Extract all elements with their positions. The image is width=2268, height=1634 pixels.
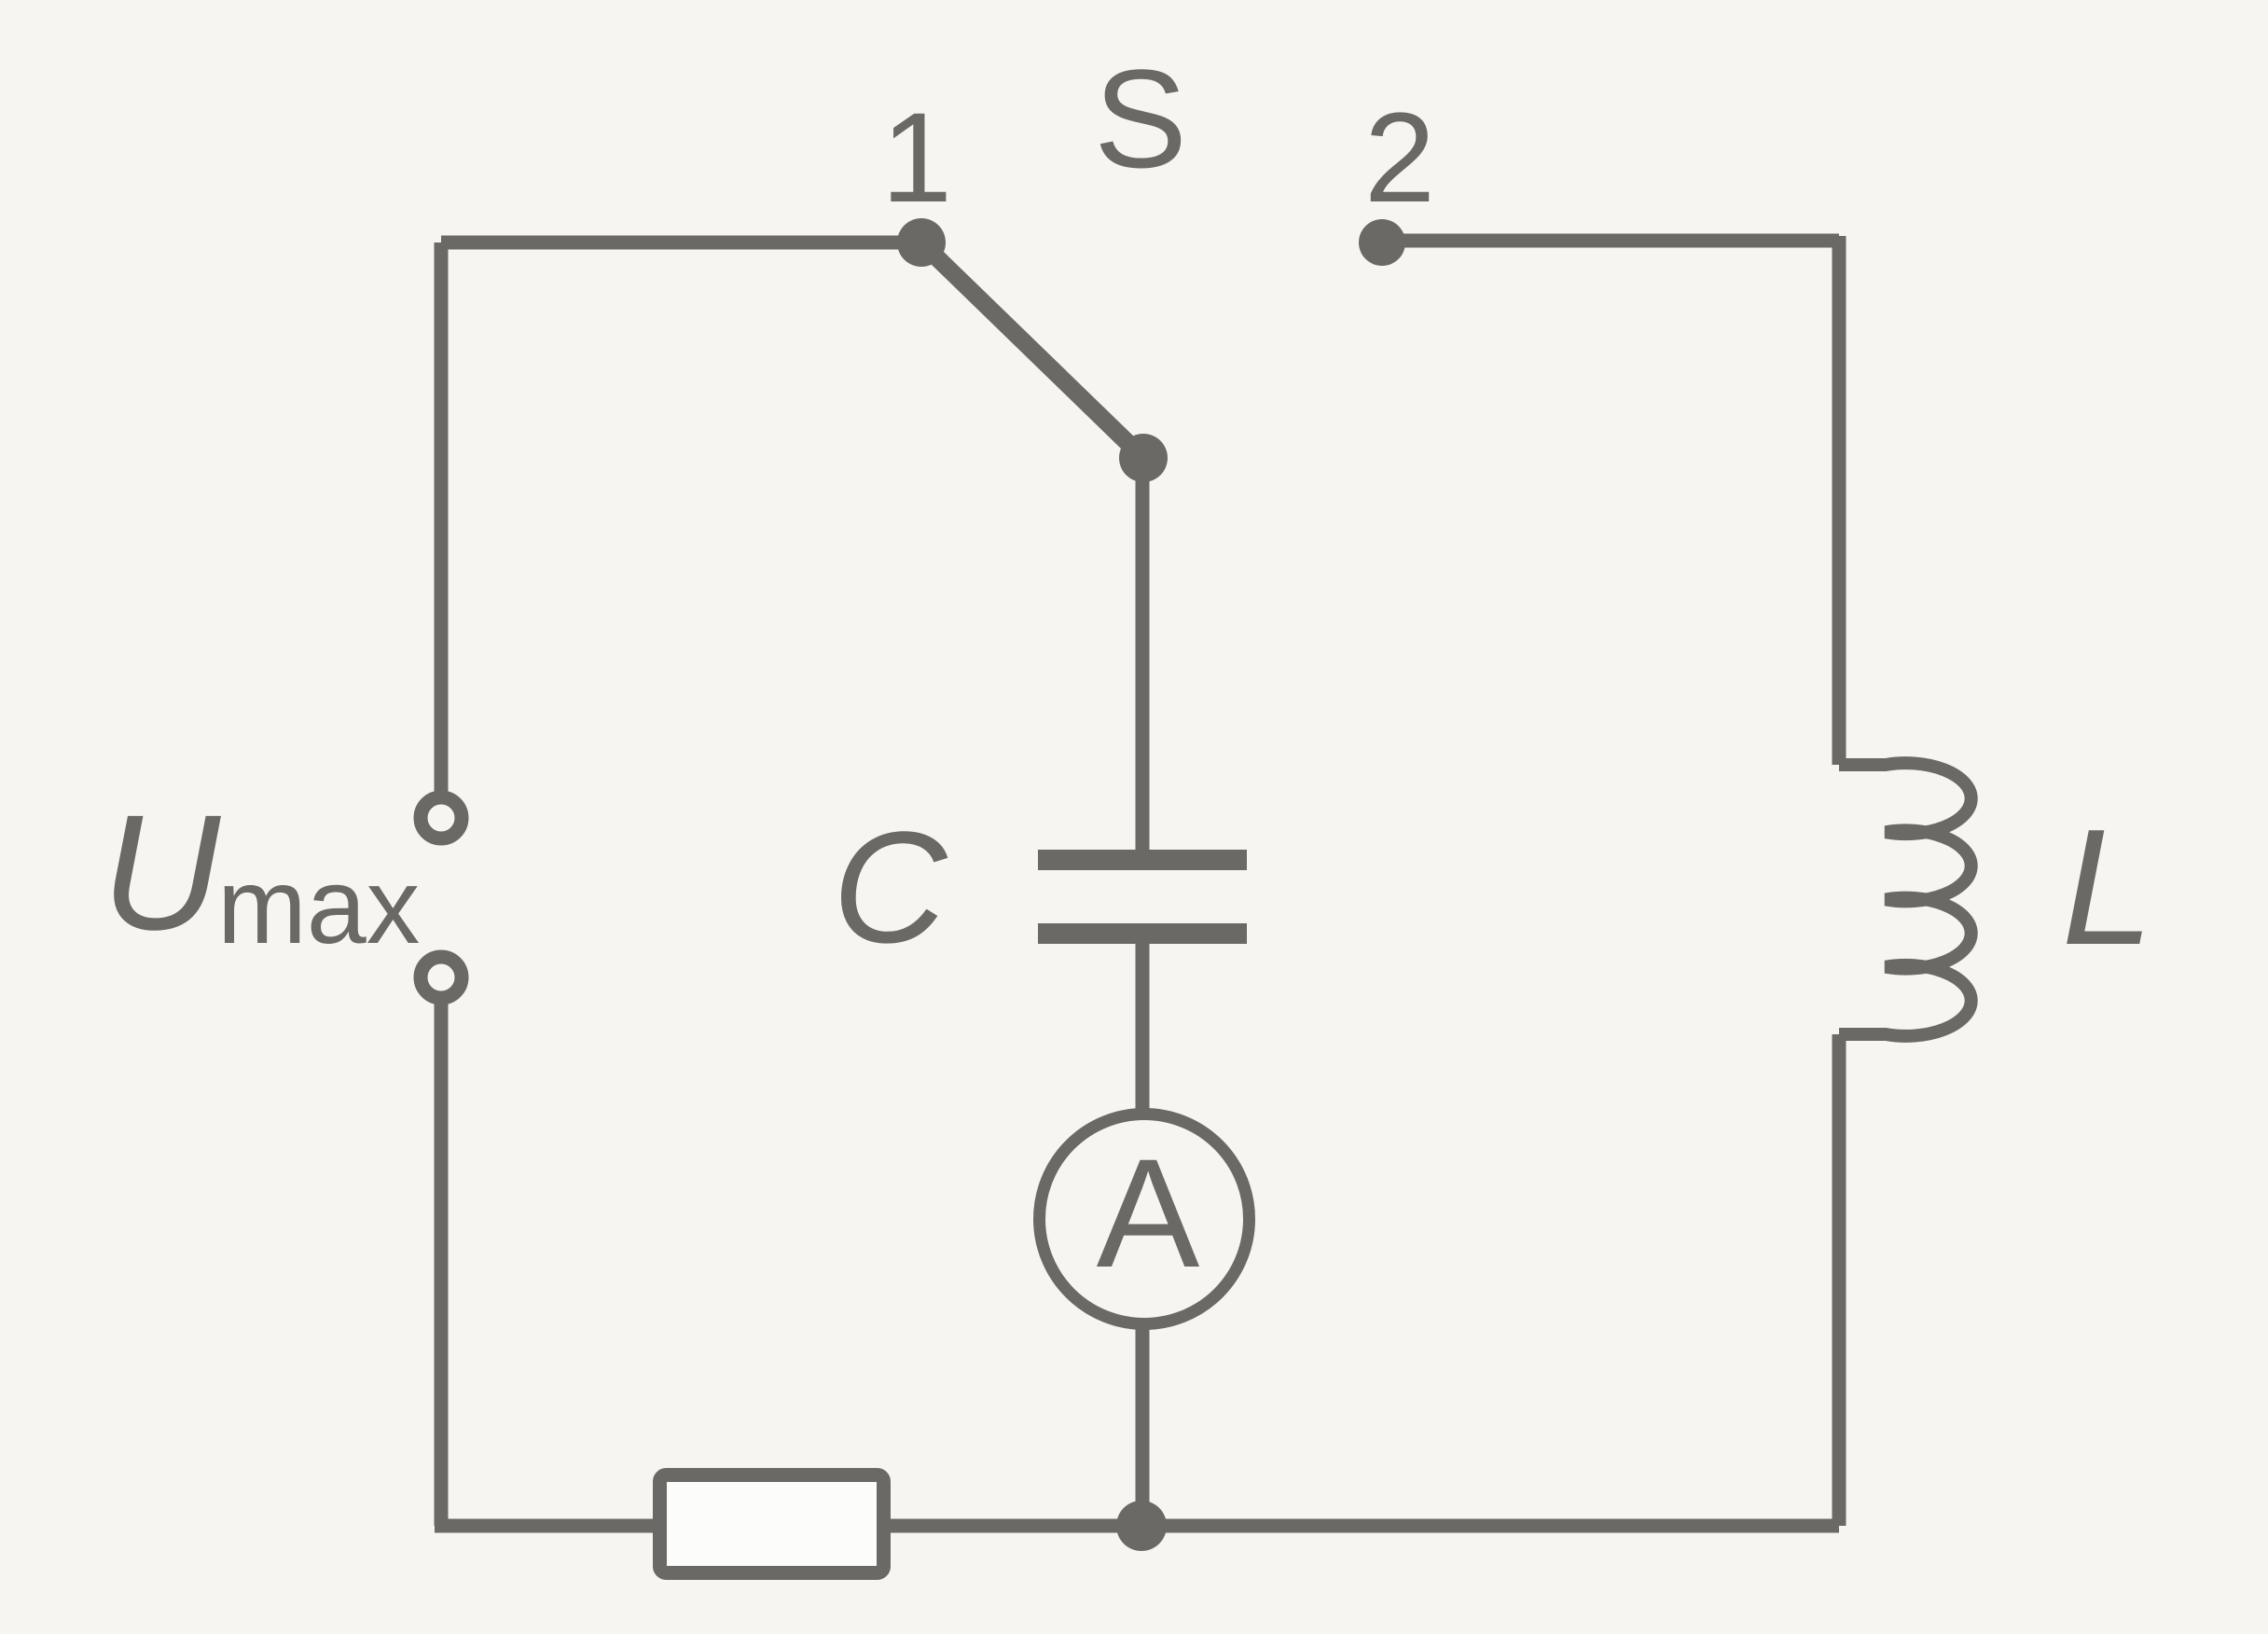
ammeter A circle [1040,1115,1250,1324]
wire capacitor to ammeter [1136,940,1150,1115]
svg-text:L: L [2062,795,2153,979]
svg-text:2: 2 [1364,87,1435,229]
svg-text:1: 1 [881,87,952,229]
inductor L coil [1839,763,1971,1036]
wire right vertical lower [1832,1034,1846,1526]
source Umax terminal lower [421,957,462,998]
resistor box [660,1475,884,1573]
junction node bottom [1116,1501,1167,1551]
wire right vertical upper [1832,236,1846,765]
switch S contact node 2 [1359,219,1405,266]
wire left vertical lower [435,1002,449,1526]
switch S pivot dot [1119,434,1168,482]
wire bottom left [435,1519,659,1533]
switch S arm blade [921,242,1143,458]
wire bottom right of resistor [884,1519,1839,1533]
source Umax terminal upper [421,797,462,838]
capacitor C bottom plate [1038,923,1247,944]
svg-text:U: U [102,782,221,964]
switch S contact node 1 [897,218,946,267]
svg-text:S: S [1094,40,1187,197]
svg-text:max: max [217,847,420,966]
svg-text:C: C [833,799,948,976]
wire ammeter to bottom junction [1136,1323,1150,1526]
wire switch pole vertical [1136,471,1150,850]
capacitor C top plate [1038,850,1247,870]
wire top-left horizontal [441,236,921,250]
svg-text:A: A [1097,1128,1200,1300]
wire left vertical upper [435,242,449,794]
wire top-right horizontal [1382,234,1839,248]
